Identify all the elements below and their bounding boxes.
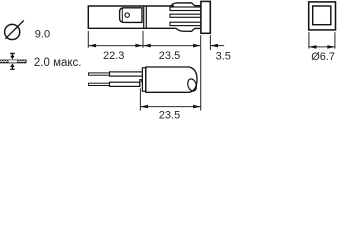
arrowhead right of 23.5 xyxy=(193,44,201,48)
dimension line 22.3 / 23.5 xyxy=(88,45,200,47)
lamp lead wire thin bottom xyxy=(89,83,110,85)
holder body barrel (side view) xyxy=(88,6,176,28)
retainer prong middle xyxy=(170,14,201,17)
extension line at barrel rear xyxy=(87,31,89,48)
lamp base ring xyxy=(142,68,145,91)
svg-text:22.3: 22.3 xyxy=(103,50,124,62)
arrowhead left of lamp 23.5 xyxy=(140,105,148,109)
dimension 3.5 tail line xyxy=(210,45,224,47)
panel cross-section hatched bar xyxy=(0,60,27,64)
arrowhead left of Ø6.7 xyxy=(309,45,317,49)
snap-in clip top xyxy=(170,3,201,7)
lead step detail at base xyxy=(140,80,141,87)
retainer prong top xyxy=(170,7,201,11)
retainer prong bottom xyxy=(170,22,201,25)
body collar ring lines xyxy=(144,6,147,28)
extension line at flange front face xyxy=(209,35,211,50)
lamp lead wire thick top xyxy=(110,72,143,76)
lamp lead wire thin top xyxy=(89,73,110,75)
flange front view outer square xyxy=(309,2,336,30)
extension line square left xyxy=(308,32,310,48)
arrowhead of 3.5 xyxy=(210,44,218,48)
svg-text:Ø6.7: Ø6.7 xyxy=(311,51,335,63)
svg-text:23.5: 23.5 xyxy=(159,109,180,120)
extension line at collar xyxy=(142,31,144,48)
arrowhead right of Ø6.7 xyxy=(327,45,335,49)
dimension line Ø6.7 xyxy=(309,46,335,48)
arrowhead right of 22.3 xyxy=(135,44,143,48)
terminal tab hole xyxy=(125,13,129,17)
panel thickness arrow bottom xyxy=(10,63,15,69)
front flange (side view) xyxy=(201,1,210,33)
flange front view inner square xyxy=(313,6,331,25)
terminal tab inner edge xyxy=(121,8,123,22)
arrowhead right of lamp 23.5 xyxy=(193,105,201,109)
dimension line 23.5 lamp length xyxy=(140,106,200,108)
terminal tab xyxy=(120,8,142,23)
extension line square right xyxy=(334,32,336,48)
lamp glass bulb xyxy=(146,67,197,92)
bulb exhaust tip detail xyxy=(186,78,198,93)
extension line at flange rear face xyxy=(200,35,202,110)
panel thickness arrow top xyxy=(10,53,15,59)
svg-text:23.5: 23.5 xyxy=(159,50,180,62)
arrowhead left of 23.5 xyxy=(143,44,151,48)
lamp lead wire thick bottom xyxy=(110,82,140,86)
arrowhead left of 22.3 xyxy=(89,44,97,48)
svg-text:3.5: 3.5 xyxy=(216,50,231,62)
svg-text:2.0 макс.: 2.0 макс. xyxy=(34,57,82,69)
svg-text:9.0: 9.0 xyxy=(35,28,50,40)
extension line at lamp glass rear xyxy=(139,88,141,110)
snap-in clip bottom xyxy=(176,28,201,31)
diameter symbol (circle with slash) xyxy=(5,21,24,40)
